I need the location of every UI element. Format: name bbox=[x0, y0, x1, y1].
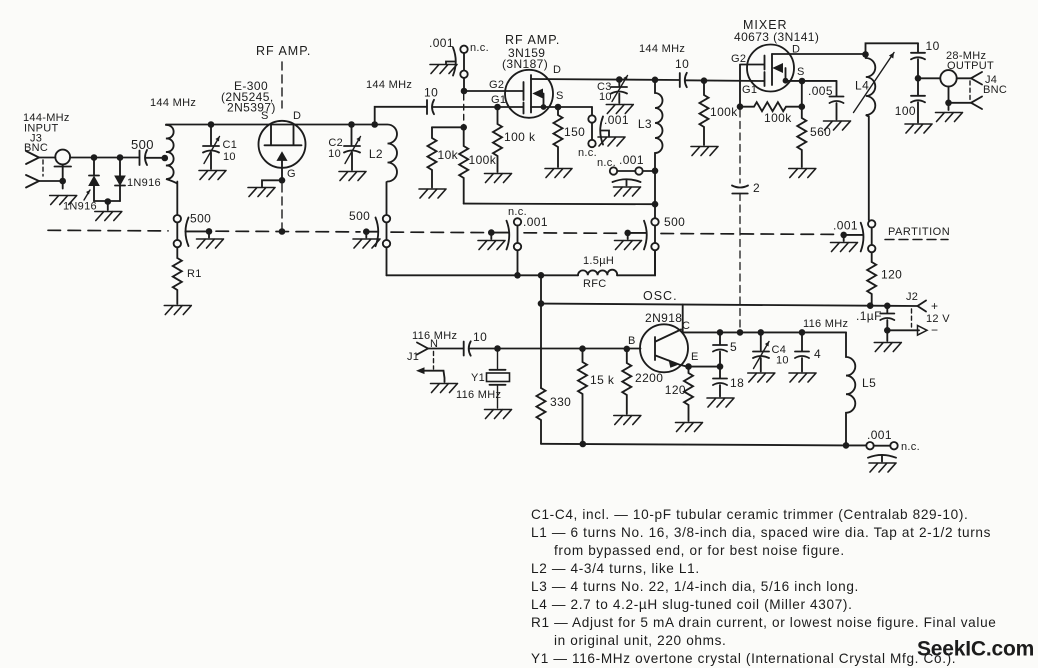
svg-text:144 MHz: 144 MHz bbox=[639, 43, 685, 55]
svg-text:D: D bbox=[293, 110, 301, 122]
svg-text:500: 500 bbox=[131, 137, 154, 152]
wire J4 shell lead bbox=[949, 102, 972, 104]
capacitor 10 (G1 coupling) bbox=[424, 86, 438, 115]
injection line dash-dot upper bbox=[739, 110, 741, 183]
ground at 2200 bbox=[614, 416, 641, 425]
feedthrough capacitor .001 n.c. (osc bottom) bbox=[846, 428, 920, 462]
wire feedthrough to 120 bbox=[871, 252, 873, 262]
capacitor C3 trimmer 10 bbox=[597, 76, 628, 104]
node junction dot J3 shell bbox=[59, 178, 66, 185]
resistor 2200 bbox=[622, 349, 631, 414]
svg-text:2N918: 2N918 bbox=[645, 311, 682, 325]
capacitor 10 (osc input) bbox=[464, 330, 487, 356]
node junction dot 2200 base bbox=[624, 346, 631, 353]
diode D2 1N916 (pointing down) bbox=[115, 158, 125, 202]
node junction dot Q3 source inner bbox=[783, 78, 789, 84]
svg-text:10: 10 bbox=[473, 330, 487, 344]
transistor Q1 internals bbox=[265, 125, 302, 181]
svg-text:(3N187): (3N187) bbox=[502, 57, 548, 71]
node junction dot 15k bbox=[579, 345, 586, 352]
svg-text:G2: G2 bbox=[489, 79, 504, 91]
capacitor 5 bbox=[713, 332, 737, 366]
label J2 bbox=[906, 291, 950, 337]
svg-text:.001: .001 bbox=[833, 219, 858, 233]
svg-text:.001: .001 bbox=[867, 428, 892, 442]
inductor L4 bbox=[866, 54, 876, 220]
wire top rail stage1 bbox=[166, 124, 375, 126]
feedthrough capacitor 500 (L2 bottom) bbox=[349, 209, 390, 247]
transistor Q3 40673 circle bbox=[747, 45, 794, 92]
node junction dot C2 bbox=[348, 121, 355, 128]
ground at source bypass bbox=[598, 137, 625, 146]
capacitor 100 output bbox=[895, 78, 925, 122]
ground at feedthrough4 bbox=[615, 241, 642, 250]
arrow J1 ground bbox=[416, 367, 445, 382]
svg-text:10: 10 bbox=[328, 148, 341, 160]
wire 500 feedthrough to bottom rail bbox=[654, 250, 656, 275]
svg-text:R1: R1 bbox=[187, 268, 202, 280]
resistor 150 bbox=[554, 107, 563, 167]
node junction dot OSC rail left bbox=[538, 300, 545, 307]
feedthrough capacitor .001 (L4 bottom) bbox=[833, 219, 875, 253]
connector J3 chevron lower bbox=[26, 175, 39, 188]
node junction dot 15k bottom bbox=[580, 441, 587, 448]
wire AGC return line bbox=[464, 203, 655, 206]
wire Q1 gate to ground bbox=[262, 180, 282, 186]
shield dashed line stage2 bbox=[463, 95, 465, 127]
wire L1 bottom down bbox=[176, 182, 178, 216]
svg-text:10k: 10k bbox=[438, 148, 459, 162]
svg-text:10: 10 bbox=[926, 39, 940, 53]
node junction dot output bbox=[915, 75, 922, 82]
connector J4 chevron upper bbox=[971, 72, 982, 85]
wire L3 bottom to feedthrough bbox=[654, 171, 656, 218]
svg-text:G2: G2 bbox=[731, 53, 746, 65]
ground at 100k mixer bbox=[691, 147, 718, 156]
connector J4 chevron lower bbox=[971, 97, 982, 110]
wire diode bottoms bbox=[94, 200, 120, 202]
wire Q2 drain line bbox=[531, 79, 680, 80]
svg-text:.001: .001 bbox=[523, 215, 548, 229]
wire lower chevron to shell bbox=[39, 180, 63, 182]
transistor Q3 internals bbox=[765, 54, 786, 86]
svg-text:.001: .001 bbox=[429, 36, 454, 50]
node junction dot 150 source bbox=[555, 104, 562, 111]
svg-text:5: 5 bbox=[730, 340, 737, 354]
svg-text:.005: .005 bbox=[808, 84, 833, 98]
ground at L3 bypass bbox=[614, 187, 641, 196]
svg-text:.001: .001 bbox=[604, 113, 629, 127]
node junction dot bias divider bbox=[460, 124, 467, 131]
arrow through L4 bbox=[854, 53, 895, 113]
svg-text:2: 2 bbox=[753, 181, 760, 195]
node junction dot feedthrough5 tap bbox=[840, 232, 847, 239]
svg-text:RFC: RFC bbox=[583, 278, 607, 290]
node junction dot L3 bottom bbox=[652, 168, 659, 175]
wire L2 feedthrough to bottom rail bbox=[386, 247, 388, 275]
resistor 560 bbox=[797, 107, 806, 167]
svg-text:10: 10 bbox=[599, 91, 612, 103]
transistor Q1 E-300 labels bbox=[221, 79, 301, 180]
wire J3 shield dashed bbox=[42, 160, 44, 176]
svg-text:L3 — 4 turns No. 22, 1/4-inch: L3 — 4 turns No. 22, 1/4-inch dia, 5/16 … bbox=[531, 579, 859, 594]
feedthrough capacitor 500 (L1 bottom) bbox=[174, 212, 212, 248]
wire RFC branch down to OSC rail bbox=[540, 275, 542, 303]
wire RFC to 500 corner bbox=[617, 250, 655, 275]
svg-text:L5: L5 bbox=[862, 376, 876, 390]
inductor RFC 1.5uH bbox=[578, 270, 617, 276]
wire mixer drain line bbox=[772, 53, 866, 55]
node junction dot 100k mixer bbox=[701, 77, 708, 84]
ground at feedthrough2 bbox=[353, 239, 380, 248]
capacitor C1 trimmer 10 bbox=[203, 125, 237, 170]
ground at C4 bbox=[748, 373, 775, 382]
svg-text:D: D bbox=[553, 64, 561, 76]
svg-text:S: S bbox=[797, 66, 805, 78]
svg-text:n.c.: n.c. bbox=[597, 157, 616, 169]
svg-text:L4: L4 bbox=[855, 79, 869, 93]
svg-text:BNC: BNC bbox=[983, 84, 1007, 96]
svg-text:OUTPUT: OUTPUT bbox=[947, 60, 994, 72]
svg-text:R1 — Adjust for 5 mA drain cur: R1 — Adjust for 5 mA drain current, or l… bbox=[531, 615, 996, 630]
ground at J3 shell bbox=[50, 196, 77, 205]
wire rail to 330 bbox=[540, 304, 542, 388]
svg-text:10: 10 bbox=[675, 57, 689, 71]
svg-text:500: 500 bbox=[190, 212, 211, 226]
capacitor 10 (mixer coupling) bbox=[675, 57, 689, 87]
inductor L5 bbox=[846, 332, 855, 445]
ground at 150 bbox=[545, 169, 572, 178]
svg-text:4: 4 bbox=[814, 347, 821, 361]
ground at .001 n.c. stage2 bbox=[430, 65, 457, 74]
diode D1 1N916 (pointing up) bbox=[89, 158, 99, 202]
node junction dot L3 top bbox=[652, 77, 659, 84]
svg-text:C1-C4, incl. — 10-pF tubular c: C1-C4, incl. — 10-pF tubular ceramic tri… bbox=[531, 507, 968, 522]
wire Q3 G2 lead bbox=[740, 65, 764, 107]
connector J2 chevron bbox=[918, 301, 927, 312]
node junction dot diode bottoms bbox=[105, 198, 112, 205]
node junction dot L2 top bbox=[371, 121, 378, 128]
node junction dot G2 bbox=[461, 88, 468, 95]
svg-text:RF AMP.: RF AMP. bbox=[256, 44, 311, 58]
wire nc feedthrough to bottom rail bbox=[517, 250, 519, 275]
node junction dot C1 bbox=[208, 121, 215, 128]
node junction dot Y1 bbox=[494, 345, 501, 352]
node junction dot J4 shell bbox=[945, 100, 952, 107]
connector J3 flange bar bbox=[55, 166, 72, 168]
resistor R1 bbox=[173, 258, 182, 304]
feedthrough capacitor 500 (L3 bottom) bbox=[628, 215, 686, 250]
ground at feedthrough5 bbox=[831, 243, 858, 252]
node junction dot feedthrough3 tap bbox=[488, 229, 495, 236]
ground at C3 bbox=[606, 105, 633, 114]
svg-text:120: 120 bbox=[881, 268, 902, 282]
node junction dot feedthrough4 tap bbox=[624, 230, 631, 237]
feedthrough capacitor .001 n.c. (source bypass) bbox=[578, 113, 629, 159]
svg-text:.001: .001 bbox=[619, 153, 644, 167]
node junction dot shield on partition bbox=[279, 228, 286, 235]
node junction dot Q1 gate bbox=[279, 177, 286, 184]
transistor Q2 3N159 circle bbox=[505, 70, 553, 118]
wire diode ground stub bbox=[107, 202, 109, 211]
ground at diodes bbox=[95, 212, 122, 221]
inductor L2 bbox=[375, 125, 397, 182]
injection line dash-dot lower bbox=[739, 194, 741, 332]
notes text block bbox=[531, 507, 996, 666]
svg-text:Y1 — 116-MHz overtone crystal: Y1 — 116-MHz overtone crystal (Internati… bbox=[531, 651, 956, 666]
svg-text:1N916: 1N916 bbox=[63, 201, 97, 213]
svg-text:J2: J2 bbox=[906, 291, 918, 303]
svg-text:L4 — 2.7 to 4.2-µH slug-tuned: L4 — 2.7 to 4.2-µH slug-tuned coil (Mill… bbox=[531, 597, 853, 612]
label 2N918 bbox=[628, 311, 699, 363]
svg-text:500: 500 bbox=[664, 215, 685, 229]
svg-text:500: 500 bbox=[349, 209, 370, 223]
svg-text:18: 18 bbox=[730, 376, 744, 390]
arrow J2 negative bbox=[887, 326, 927, 336]
svg-text:S: S bbox=[556, 90, 564, 102]
resistor 120 emitter bbox=[684, 367, 693, 421]
ground at .005 bbox=[824, 121, 851, 130]
svg-text:144 MHz: 144 MHz bbox=[366, 79, 412, 91]
svg-text:2200: 2200 bbox=[635, 371, 663, 385]
node J3 input connector labels bbox=[23, 112, 70, 154]
transistor Q4 2N918 circle bbox=[640, 324, 688, 372]
capacitor 4 bbox=[795, 332, 821, 371]
shield dashed line stage1 lower bbox=[281, 184, 283, 231]
ground at Y1 bbox=[485, 410, 512, 419]
svg-text:.1µF: .1µF bbox=[856, 309, 882, 323]
svg-text:1.5µH: 1.5µH bbox=[583, 255, 614, 267]
svg-text:n.c.: n.c. bbox=[901, 441, 920, 453]
wire input line bbox=[39, 157, 55, 159]
feedthrough capacitor .001 n.c. horizontal (L3) bbox=[597, 153, 655, 186]
svg-text:C1: C1 bbox=[223, 139, 238, 151]
node junction dot .1uF top bbox=[884, 303, 891, 310]
wire drain top corner bbox=[866, 43, 919, 54]
crystal Y1 bbox=[456, 349, 510, 409]
node junction dot L1 tap bbox=[162, 155, 169, 162]
wire L2 top corner to cap10 bbox=[375, 107, 427, 125]
wire OSC B+ rail bbox=[541, 304, 918, 306]
svg-text:n.c.: n.c. bbox=[578, 147, 597, 159]
resistor 10k bbox=[428, 127, 437, 187]
capacitor 10 output bbox=[911, 39, 940, 78]
resistor 330 bbox=[537, 388, 546, 444]
svg-text:L2: L2 bbox=[369, 147, 383, 161]
svg-text:B: B bbox=[628, 335, 636, 347]
label 28-MHz OUTPUT bbox=[946, 50, 1007, 96]
wire cap to L1 tap bbox=[146, 157, 165, 159]
connector J4 BNC circle bbox=[940, 70, 956, 86]
wire J4 shield dashed bbox=[969, 81, 971, 100]
transistor Q2 internals bbox=[524, 75, 544, 114]
wire J4 shell down bbox=[948, 87, 950, 111]
node junction dot AGC corner bbox=[652, 201, 659, 208]
resistor 15k bbox=[578, 349, 587, 445]
svg-text:OSC.: OSC. bbox=[643, 289, 678, 303]
node junction dot G2 bias bbox=[737, 103, 744, 110]
resistor 120 (B+ feed) bbox=[867, 262, 876, 306]
node junction dot RFC branch bbox=[538, 272, 545, 279]
svg-text:Y1: Y1 bbox=[471, 372, 485, 384]
ground at feedthrough1 bbox=[197, 239, 224, 248]
capacitor C4 trimmer 10 bbox=[753, 332, 789, 371]
resistor 100k (mixer G1) bbox=[700, 81, 709, 145]
svg-text:G: G bbox=[287, 168, 296, 180]
transistor Q4 internals bbox=[655, 330, 687, 368]
transistor Q1 E-300 circle bbox=[259, 121, 306, 168]
svg-text:144 MHz: 144 MHz bbox=[150, 97, 196, 109]
svg-text:116 MHz: 116 MHz bbox=[456, 389, 501, 401]
svg-text:L3: L3 bbox=[638, 117, 652, 131]
wire cap to mixer G1 bbox=[685, 79, 764, 82]
ground at 560 bbox=[789, 169, 816, 178]
node junction dot 560 top bbox=[799, 103, 806, 110]
svg-text:L1 — 6 turns No. 16, 3/8-inch: L1 — 6 turns No. 16, 3/8-inch dia, space… bbox=[531, 525, 991, 540]
wire BNC to cap bbox=[70, 157, 138, 159]
svg-text:from bypassed end, or for best: from bypassed end, or for best noise fig… bbox=[554, 543, 845, 558]
wire J4 circle to pin bbox=[957, 77, 971, 79]
svg-text:100: 100 bbox=[895, 104, 916, 118]
node junction dot emitter/18 bbox=[717, 363, 724, 370]
wire .001 to G2 junction bbox=[463, 78, 465, 91]
svg-text:100 k: 100 k bbox=[504, 130, 536, 144]
svg-text:L2 — 4-3/4 turns, like L1.: L2 — 4-3/4 turns, like L1. bbox=[531, 561, 700, 576]
wire bias junction to 10k bbox=[432, 126, 464, 128]
node junction dot feedthrough2 tap bbox=[363, 228, 370, 235]
node junction dot 12V rail bbox=[867, 302, 874, 309]
ground at 4 bbox=[789, 373, 816, 382]
capacitor 18 bbox=[713, 367, 744, 397]
ground at R1 bbox=[164, 306, 191, 315]
inductor L1 bbox=[166, 125, 177, 184]
label RF AMP stage2 bbox=[489, 33, 564, 106]
svg-text:100k: 100k bbox=[764, 111, 792, 125]
node junction dot cap5 top bbox=[717, 329, 724, 336]
connector J1 chevron bbox=[417, 343, 428, 355]
ground at feedthrough3 bbox=[478, 241, 505, 250]
svg-text:15 k: 15 k bbox=[590, 373, 615, 387]
svg-text:n.c.: n.c. bbox=[470, 42, 489, 54]
svg-text:100k: 100k bbox=[710, 105, 738, 119]
node junction dot mixer S bbox=[799, 78, 806, 85]
node junction dot C3 bbox=[616, 76, 623, 83]
capacitor 2 (injection) bbox=[732, 181, 760, 195]
node junction dot cap4 top bbox=[799, 329, 806, 336]
svg-text:+: + bbox=[931, 299, 938, 313]
wire bottom rail left bbox=[387, 274, 579, 276]
wire J1 to cap bbox=[428, 348, 463, 350]
svg-text:10: 10 bbox=[776, 355, 789, 367]
resistor 100k (bias stage2) bbox=[459, 127, 468, 203]
wire cap10 to G1 bbox=[433, 106, 523, 108]
node junction dot nc bottom bbox=[514, 272, 521, 279]
partition dashed line bbox=[48, 230, 837, 234]
wire S to bias bbox=[801, 81, 803, 107]
ground at 100 bbox=[905, 124, 932, 133]
node junction dot C4 top bbox=[758, 329, 765, 336]
svg-text:PARTITION: PARTITION bbox=[888, 226, 950, 238]
ground at 18 bbox=[707, 398, 734, 407]
node junction dot L5 bottom bbox=[843, 442, 850, 449]
wire G1/S line through Q2 bbox=[531, 106, 592, 108]
label MIXER bbox=[731, 18, 819, 96]
ground at J1 bbox=[431, 384, 458, 393]
label J1 input bbox=[407, 330, 457, 363]
node junction dot Q2 source inner bbox=[541, 104, 547, 110]
wire source to bypass bbox=[591, 107, 593, 115]
svg-text:−: − bbox=[931, 323, 938, 337]
wire L2 bottom down bbox=[386, 182, 388, 215]
wire J2 shield dashed bbox=[911, 309, 913, 327]
shield dashed line stage1 upper bbox=[281, 62, 283, 108]
wire BNC shell down bbox=[62, 164, 64, 188]
node junction dot injection bbox=[737, 329, 744, 336]
node junction dot feedthrough1 tap bbox=[206, 228, 213, 235]
wire feedthrough to R1 bbox=[176, 247, 178, 258]
wire osc main line bbox=[469, 348, 640, 350]
ground at 120 emitter bbox=[676, 423, 703, 432]
svg-text:150: 150 bbox=[564, 125, 585, 139]
svg-text:RF AMP.: RF AMP. bbox=[505, 33, 560, 47]
svg-text:330: 330 bbox=[550, 395, 571, 409]
feedthrough capacitor .001 n.c. (G2 top) bbox=[429, 36, 489, 78]
svg-text:40673 (3N141): 40673 (3N141) bbox=[734, 30, 819, 44]
ground at C2 bbox=[339, 172, 366, 181]
node junction dot 120 emitter bbox=[685, 363, 692, 370]
svg-text:10: 10 bbox=[223, 151, 236, 163]
ground at 10k bbox=[419, 189, 446, 198]
resistor 100k horizontal (mixer bias) bbox=[740, 102, 802, 111]
ground at C1 bbox=[199, 171, 226, 180]
svg-text:E: E bbox=[691, 351, 699, 363]
connector J3 chevron upper bbox=[26, 151, 39, 164]
wire Q3 source out bbox=[786, 80, 837, 82]
partition underline dashes bbox=[885, 239, 948, 241]
ground at Q1 gate bbox=[248, 188, 275, 197]
inductor L3 bbox=[655, 80, 663, 171]
ground at J4 bbox=[936, 113, 963, 122]
svg-text:10: 10 bbox=[424, 86, 438, 100]
wire Q4 collector to rail and tank bbox=[683, 305, 846, 333]
svg-text:J1: J1 bbox=[407, 351, 419, 363]
node junction dot diode D2 top bbox=[117, 154, 124, 161]
wire .1uF to ground bbox=[886, 330, 888, 341]
capacitor .1uF bbox=[856, 306, 894, 331]
ground at osc bottom bypass bbox=[869, 463, 896, 472]
node junction dot L4 top bbox=[862, 51, 869, 58]
node junction dot 100k G1 bbox=[494, 104, 501, 111]
ground at 100k G1 bbox=[485, 174, 512, 183]
label 1N916 for D1 with arrow bbox=[63, 190, 97, 213]
resistor 100 k (G1) bbox=[493, 107, 502, 172]
wire J1 shield dashed bbox=[433, 352, 435, 370]
node junction dot .1uF bottom bbox=[884, 327, 891, 334]
wire G2 lead bbox=[464, 90, 523, 92]
wire output to J4 bbox=[918, 77, 940, 79]
capacitor C2 trimmer 10 bbox=[328, 125, 360, 171]
node junction dot diode D1 top bbox=[91, 154, 98, 161]
feedthrough capacitor .001 n.c. (partition mid) bbox=[491, 206, 548, 250]
svg-text:S: S bbox=[261, 110, 269, 122]
svg-text:120: 120 bbox=[665, 383, 686, 397]
wire OSC bottom rail bbox=[541, 444, 846, 446]
connector J3 BNC circle bbox=[55, 150, 70, 165]
svg-text:SeekIC.com: SeekIC.com bbox=[917, 638, 1034, 661]
wire Q4 emitter line bbox=[687, 366, 720, 368]
svg-text:1N916: 1N916 bbox=[127, 177, 161, 189]
capacitor .005 bbox=[808, 81, 844, 120]
